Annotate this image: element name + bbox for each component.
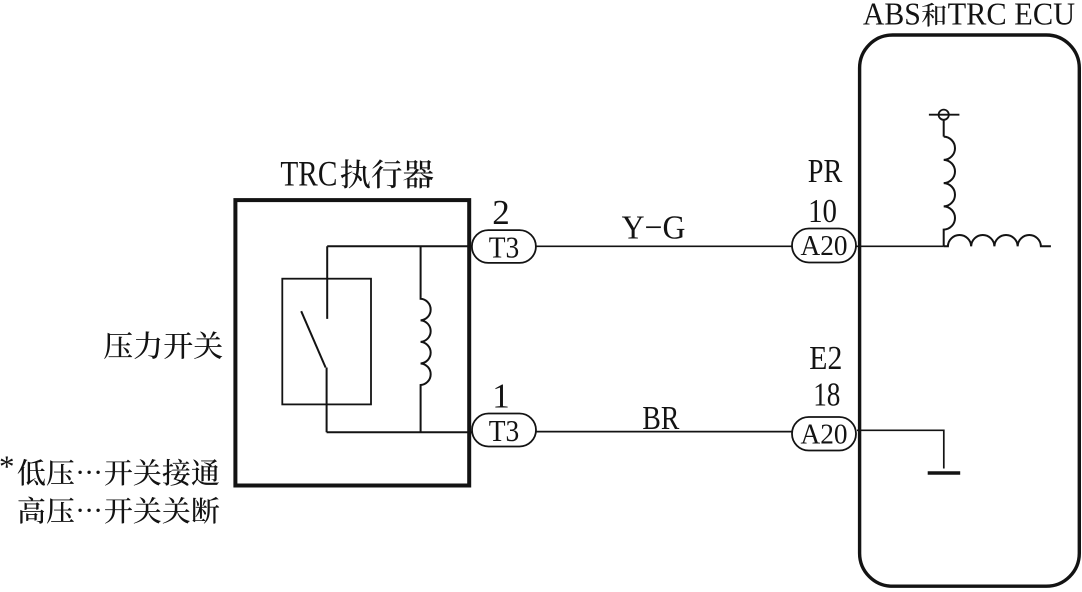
svg-text:E2: E2 bbox=[809, 340, 842, 377]
label: TRC actuator title "TRC执行器" bbox=[280, 154, 433, 194]
svg-text:18: 18 bbox=[813, 377, 840, 414]
ECU internal terminal circle bbox=[939, 110, 949, 120]
switch fixed contact (top lead) bbox=[326, 246, 328, 319]
connector A20 pin 10 stadium bbox=[792, 229, 856, 263]
wire: A20-10 into ECU junction bbox=[856, 245, 944, 247]
connector T3 pin 1 stadium bbox=[472, 414, 536, 447]
svg-text:PR: PR bbox=[808, 153, 843, 190]
label: ECU title "ABS和TRC ECU" bbox=[863, 0, 1075, 32]
ground bar bbox=[928, 471, 961, 475]
wire: bottom internal (switch/coil bottom bus to T3 pin1) bbox=[327, 431, 472, 433]
switch blade (open) bbox=[301, 311, 325, 367]
svg-text:BR: BR bbox=[642, 400, 679, 437]
note line 2 "高压…开关关断" bbox=[18, 497, 219, 524]
wire: A20-18 to ground bbox=[857, 430, 944, 468]
connector T3 pin 2 stadium bbox=[472, 230, 536, 263]
note line 1 "低压…开关接通" bbox=[18, 459, 219, 486]
ECU terminal tick bbox=[929, 114, 960, 116]
ECU horizontal coil bbox=[944, 235, 1051, 246]
TRC actuator box bbox=[235, 200, 469, 485]
solenoid coil L1 (TRC actuator) bbox=[421, 246, 431, 432]
svg-text:1: 1 bbox=[492, 377, 510, 416]
pressure switch inner box bbox=[282, 279, 371, 405]
switch bottom lead bbox=[326, 368, 328, 433]
ECU vertical solenoid coil bbox=[944, 137, 955, 247]
connector A20 pin 18 stadium bbox=[792, 417, 856, 451]
svg-text:TRC ECU: TRC ECU bbox=[948, 0, 1076, 32]
svg-text:T3: T3 bbox=[489, 413, 520, 448]
wire: terminal to coil bbox=[943, 120, 945, 137]
svg-text:*: * bbox=[0, 449, 15, 484]
ABS and TRC ECU box bbox=[860, 35, 1080, 586]
svg-text:TRC: TRC bbox=[280, 154, 337, 194]
svg-text:A20: A20 bbox=[801, 419, 848, 451]
label: pressure switch "压力开关" bbox=[104, 331, 222, 359]
svg-text:10: 10 bbox=[808, 193, 837, 230]
wire: top internal (switch/coil top bus to T3 pin2) bbox=[327, 245, 472, 247]
svg-text:2: 2 bbox=[492, 193, 510, 232]
svg-text:Y−G: Y−G bbox=[622, 209, 686, 246]
svg-text:A20: A20 bbox=[801, 230, 848, 262]
wire BR (T3-1 to A20-18) bbox=[536, 431, 792, 433]
svg-text:T3: T3 bbox=[489, 229, 520, 264]
svg-text:ABS: ABS bbox=[863, 0, 921, 32]
wire Y-G (T3-2 to A20-10) bbox=[536, 245, 792, 247]
